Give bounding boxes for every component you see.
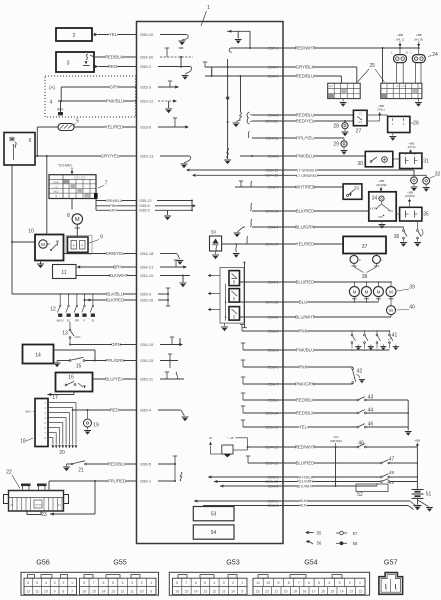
interior bus B [233, 75, 242, 127]
wire LT GRN/BLK to G56-11 [186, 167, 414, 176]
svg-text:3: 3 [54, 581, 56, 585]
svg-text:26: 26 [413, 120, 419, 126]
svg-text:18: 18 [20, 439, 26, 445]
svg-text:20: 20 [59, 450, 65, 456]
svg-text:YEL/GRN: YEL/GRN [297, 480, 314, 484]
wire 43-45 collector [405, 400, 412, 436]
wire 30-31 link [393, 153, 411, 159]
legend 55 [305, 530, 322, 535]
svg-text:5: 5 [318, 581, 320, 585]
svg-text:G55-14: G55-14 [265, 410, 279, 415]
svg-text:14: 14 [194, 590, 198, 594]
svg-text:G54-9: G54-9 [267, 73, 279, 78]
svg-text:G55-9: G55-9 [140, 292, 152, 297]
brace right pins [247, 112, 252, 124]
svg-text:49: 49 [389, 480, 394, 485]
svg-text:2: 2 [349, 581, 351, 585]
svg-text:BRN: BRN [113, 265, 122, 270]
svg-text:24: 24 [432, 52, 438, 58]
svg-text:OFF: OFF [378, 215, 384, 219]
legend 57 [336, 531, 358, 536]
svg-text:M: M [389, 289, 393, 294]
svg-text:G55-6: G55-6 [267, 397, 279, 402]
wire GRN to G54-19 [70, 337, 183, 347]
svg-text:WHT: WHT [329, 86, 334, 88]
svg-text:14: 14 [102, 590, 106, 594]
svg-text:G54-17: G54-17 [265, 241, 279, 246]
svg-text:10: 10 [140, 590, 144, 594]
svg-text:9: 9 [241, 590, 243, 594]
wire PNK to G56-1 [241, 360, 353, 370]
wire GRY to G55-5 [96, 209, 193, 221]
svg-text:BLU/RED: BLU/RED [296, 461, 315, 466]
power +BB H/L R [414, 33, 423, 47]
svg-text:BLU/GRN: BLU/GRN [295, 225, 314, 230]
svg-text:G55-7: G55-7 [267, 184, 279, 189]
svg-text:(DOME): (DOME) [376, 183, 386, 187]
svg-text:G56-10: G56-10 [265, 424, 279, 429]
svg-text:M: M [377, 289, 381, 294]
svg-text:GRN: GRN [111, 342, 121, 347]
wire PNK/BLU to G56-8 [241, 343, 390, 353]
svg-text:G54-21: G54-21 [140, 265, 154, 270]
svg-text:1: 1 [241, 581, 243, 585]
component 19 sensor [84, 409, 99, 435]
wire YEL to G56-10 [241, 420, 408, 430]
svg-text:G56-13: G56-13 [265, 460, 279, 465]
svg-text:GRD: GRD [75, 335, 81, 339]
component 22 connector body [4, 470, 69, 515]
svg-text:53: 53 [211, 512, 217, 518]
svg-text:31: 31 [423, 159, 429, 165]
svg-text:55: 55 [317, 530, 322, 535]
connector G57 [379, 558, 403, 595]
svg-text:LO: LO [54, 187, 57, 189]
ground relay block [221, 323, 228, 331]
interior row G54-7 left end [203, 62, 212, 76]
svg-text:15: 15 [92, 590, 96, 594]
svg-text:RED/YEL: RED/YEL [296, 119, 315, 124]
svg-text:17: 17 [52, 395, 58, 401]
svg-text:G56-5: G56-5 [140, 462, 152, 467]
svg-text:36: 36 [394, 234, 400, 240]
svg-text:MED: MED [53, 192, 58, 194]
svg-text:13: 13 [111, 590, 115, 594]
ground 26 [389, 133, 396, 141]
svg-text:11: 11 [256, 581, 260, 585]
component 13 switch [62, 322, 80, 346]
component 32 sensors [411, 172, 441, 185]
component 7 connector table [49, 175, 108, 199]
rail IG1 [335, 447, 337, 486]
svg-text:G55-16: G55-16 [140, 298, 154, 303]
power +BB DOME [376, 179, 386, 192]
component 21 switch [63, 461, 86, 474]
svg-text:BACK: BACK [57, 319, 64, 323]
svg-text:6: 6 [102, 581, 104, 585]
component 35 relay [400, 207, 429, 221]
wire PNK to G55-6 [96, 201, 196, 211]
component 16 switch box [56, 373, 93, 392]
svg-text:G57-1: G57-1 [267, 45, 279, 50]
svg-text:G54-11: G54-11 [265, 135, 279, 140]
svg-text:G56-1: G56-1 [267, 364, 279, 369]
svg-text:35: 35 [423, 212, 429, 218]
component 42 switch [352, 368, 365, 384]
wire RED/BLK to G54-20 [90, 48, 193, 68]
svg-text:43: 43 [368, 394, 374, 400]
svg-text:WHT/RED: WHT/RED [295, 185, 315, 190]
svg-text:41: 41 [392, 332, 398, 338]
component 53 box [193, 507, 234, 521]
svg-text:LT GRN/BLK: LT GRN/BLK [297, 169, 318, 173]
svg-text:6: 6 [29, 138, 32, 144]
svg-text:2: 2 [73, 33, 76, 39]
svg-text:BLU/YEL: BLU/YEL [105, 377, 123, 382]
wire ORN/BLU to G55-12 [96, 199, 193, 203]
svg-text:5: 5 [76, 119, 79, 125]
svg-text:G55-10: G55-10 [140, 32, 154, 37]
svg-text:32: 32 [435, 172, 441, 178]
svg-text:RL: RL [67, 319, 71, 323]
svg-text:7: 7 [71, 590, 73, 594]
svg-text:+BB: +BB [415, 439, 421, 443]
component 27 tail switch [353, 110, 367, 134]
svg-text:9: 9 [150, 590, 152, 594]
svg-text:RED/BLU: RED/BLU [296, 113, 315, 118]
svg-text:15: 15 [330, 590, 334, 594]
connector G55 [80, 558, 157, 595]
interior bus A [224, 59, 231, 164]
component 25 connector table right [381, 83, 422, 98]
svg-text:DI: DI [92, 319, 95, 323]
component 11 control box [53, 265, 77, 279]
junction block J1 outline [137, 22, 284, 544]
ground component 10 [37, 261, 44, 269]
component 31 relay [400, 153, 429, 168]
svg-text:1: 1 [207, 5, 210, 11]
svg-text:TO HVAC: TO HVAC [58, 164, 73, 168]
svg-text:4: 4 [328, 581, 330, 585]
svg-text:11: 11 [61, 270, 66, 276]
svg-text:8: 8 [176, 581, 178, 585]
svg-text:G55-11: G55-11 [140, 377, 154, 382]
svg-text:12: 12 [50, 307, 56, 313]
svg-text:17: 17 [312, 590, 316, 594]
svg-text:GRY: GRY [109, 85, 118, 90]
svg-text:52: 52 [357, 492, 363, 498]
svg-text:25: 25 [369, 63, 375, 69]
svg-text:4: 4 [122, 581, 124, 585]
component 2 switch box [56, 28, 92, 41]
ground component 50 [212, 251, 219, 259]
svg-text:BLK/RED: BLK/RED [296, 209, 315, 214]
svg-text:2: 2 [232, 581, 234, 585]
svg-text:16: 16 [68, 375, 74, 381]
component 30 switch box [357, 151, 392, 167]
svg-text:G54: G54 [304, 558, 318, 567]
svg-text:10: 10 [28, 229, 34, 235]
svg-text:G55-3: G55-3 [140, 85, 152, 90]
svg-text:DOOR: DOOR [368, 207, 376, 211]
svg-text:1: 1 [359, 581, 361, 585]
svg-text:14: 14 [340, 590, 344, 594]
svg-text:G55-6: G55-6 [139, 204, 150, 208]
ground battery [414, 498, 433, 511]
wire BLK/RED to G54-14 [251, 203, 369, 214]
svg-text:G54-4: G54-4 [267, 224, 279, 229]
svg-text:47: 47 [389, 456, 395, 462]
svg-text:G57: G57 [384, 558, 398, 567]
svg-text:20: 20 [284, 590, 288, 594]
component 6 sensor box [4, 133, 35, 166]
svg-text:15: 15 [76, 364, 82, 370]
svg-text:RED: RED [110, 408, 119, 413]
legend 58 [336, 541, 358, 546]
svg-text:PNK: PNK [109, 204, 117, 208]
svg-text:G54-1: G54-1 [267, 279, 279, 284]
svg-text:(METER): (METER) [330, 439, 342, 443]
svg-text:3: 3 [339, 581, 341, 585]
svg-text:4: 4 [45, 581, 47, 585]
svg-text:GRN/YEL: GRN/YEL [105, 251, 125, 256]
wire RED/BLK to G56-5 [86, 456, 177, 482]
wire YEL/GRN to G55-12 [214, 479, 417, 485]
svg-text:G54-14: G54-14 [265, 208, 279, 213]
wire GRY to G55-3 [61, 81, 179, 90]
svg-text:G53-3: G53-3 [267, 503, 279, 508]
wire 27-26 link [367, 115, 388, 121]
svg-text:7: 7 [93, 581, 95, 585]
wire GRN/YEL to G54-18 [64, 251, 184, 265]
component 50 box [210, 230, 222, 252]
svg-text:12: 12 [121, 590, 125, 594]
interior relay left ports [208, 274, 221, 311]
svg-text:G53-6: G53-6 [140, 125, 152, 130]
svg-text:G54-6: G54-6 [267, 153, 279, 158]
svg-text:RED/BLK: RED/BLK [296, 398, 315, 403]
svg-text:G55-5: G55-5 [139, 209, 150, 213]
svg-text:56: 56 [317, 541, 322, 546]
svg-text:8: 8 [67, 213, 70, 219]
svg-text:40: 40 [409, 305, 415, 311]
label 25 leaders [358, 63, 385, 82]
wire PNK to G56-2 [240, 325, 390, 334]
svg-text:9: 9 [54, 590, 56, 594]
svg-text:RED/BLK: RED/BLK [105, 55, 124, 60]
svg-text:G55-12: G55-12 [139, 199, 152, 203]
wire GRY/BLK to G54-7 [205, 64, 357, 83]
label TO HVAC [58, 164, 73, 175]
svg-text:57: 57 [353, 531, 358, 536]
svg-text:5: 5 [36, 581, 38, 585]
svg-text:AH1: AH1 [25, 410, 31, 414]
svg-text:G54-22: G54-22 [265, 118, 279, 123]
svg-text:7: 7 [105, 181, 108, 187]
component 37 washer unit [343, 236, 386, 253]
svg-text:18: 18 [302, 590, 306, 594]
component 34 dome switch [368, 192, 396, 221]
wire YEL/RED to G53-6 [74, 118, 189, 130]
svg-text:PNK/GRN: PNK/GRN [295, 382, 315, 387]
svg-text:(H/L L): (H/L L) [396, 37, 405, 41]
svg-text:YEL/RED: YEL/RED [296, 242, 315, 247]
svg-text:PPL/GRN: PPL/GRN [105, 358, 124, 363]
power +BB TAIL [377, 104, 385, 117]
wire BLK/BLU to G55-9 [12, 292, 169, 297]
legend 56 [306, 540, 322, 546]
svg-text:(TAIL): (TAIL) [377, 108, 385, 112]
svg-text:1 2: 1 2 [358, 112, 362, 116]
svg-text:RED: RED [108, 64, 117, 69]
svg-text:11: 11 [222, 590, 226, 594]
svg-text:M: M [75, 217, 80, 223]
svg-text:16: 16 [321, 590, 325, 594]
component 12 switch bank [50, 293, 95, 322]
svg-text:PPL/RED: PPL/RED [108, 479, 127, 484]
svg-text:M: M [353, 289, 357, 294]
wire PPL/RED to G56-1 [49, 479, 175, 484]
component 14 module box [23, 345, 54, 364]
svg-text:(H/L R): (H/L R) [414, 37, 423, 41]
svg-text:51: 51 [426, 492, 432, 498]
svg-text:39: 39 [409, 284, 415, 290]
wire LT GRN/RED to G54-15 [192, 173, 426, 178]
component 24 lamp left [391, 48, 408, 63]
svg-text:G56-11: G56-11 [265, 167, 279, 172]
svg-text:12: 12 [26, 590, 30, 594]
svg-text:29: 29 [333, 142, 339, 148]
component 15 switch [54, 357, 85, 369]
wire 36 link [404, 226, 418, 228]
svg-text:PWR: PWR [53, 182, 59, 184]
svg-text:7: 7 [186, 581, 188, 585]
component 4 BLK terminal [50, 100, 65, 116]
svg-text:GRY: GRY [109, 209, 118, 213]
ground G53-13 [181, 156, 191, 168]
wire BLU/WHT to G54-2 [240, 314, 392, 319]
component 24 lamp right [410, 48, 438, 63]
svg-text:10: 10 [266, 581, 270, 585]
svg-text:23: 23 [41, 512, 47, 518]
svg-text:21: 21 [78, 468, 84, 474]
svg-text:ON: ON [389, 209, 393, 213]
svg-text:22: 22 [6, 470, 12, 476]
svg-text:5: 5 [204, 581, 206, 585]
component 10 motor box [28, 229, 63, 261]
grounds 32 [411, 184, 430, 192]
interior relay block [220, 268, 244, 324]
interior relay right rail [225, 262, 247, 328]
component 9 connector [66, 235, 103, 255]
wire RED/BLU to G54-8 [252, 112, 353, 117]
wire PPL/GRN to G55-15 [57, 354, 178, 368]
svg-text:BLK/BLU: BLK/BLU [106, 292, 124, 297]
wire BLK to G57-2 [194, 498, 416, 505]
svg-text:PNK: PNK [299, 329, 308, 334]
svg-text:G54-19: G54-19 [140, 342, 154, 347]
wire lamp drops [397, 63, 422, 84]
wire hvac drop [71, 199, 73, 210]
power +BB HORN [405, 190, 415, 203]
interior mid dashes [242, 342, 244, 367]
svg-text:ORN/BLU: ORN/BLU [106, 199, 123, 203]
svg-text:58: 58 [353, 541, 358, 546]
svg-text:46: 46 [358, 440, 364, 446]
svg-text:LT GRN/RED: LT GRN/RED [296, 174, 318, 178]
svg-text:6: 6 [308, 581, 310, 585]
svg-text:M: M [365, 289, 369, 294]
component 36 horn switches [394, 221, 423, 247]
wire GRY/YEL to G53-13 [35, 154, 189, 159]
svg-text:37: 37 [362, 244, 368, 250]
svg-text:PPL/YEL: PPL/YEL [296, 136, 314, 141]
component 22 top plugs [21, 484, 47, 491]
wire 23 branch [41, 480, 96, 518]
svg-text:M: M [389, 308, 393, 313]
svg-text:RED/BLU: RED/BLU [296, 74, 315, 79]
wire BLU/RED to G56-13 [246, 456, 418, 466]
svg-text:G55-15: G55-15 [140, 358, 154, 363]
svg-text:PNK/BLU: PNK/BLU [296, 348, 315, 353]
svg-text:RED/WHT: RED/WHT [295, 46, 316, 51]
component 38 washer motors [350, 254, 384, 280]
ground table right [415, 99, 422, 107]
svg-text:5: 5 [112, 581, 114, 585]
svg-text:14: 14 [35, 353, 41, 359]
svg-text:RR: RR [75, 319, 79, 323]
svg-text:16: 16 [82, 590, 86, 594]
wire BLU/YEL to G55-11 [93, 372, 185, 382]
svg-text:8: 8 [83, 581, 85, 585]
wire RED/WHT to G54-13 [248, 440, 418, 449]
wire BLU/RED to G54-1 [240, 279, 392, 284]
svg-text:G54-3: G54-3 [267, 483, 279, 488]
scan artifact mark [94, 193, 98, 199]
svg-text:13: 13 [203, 590, 207, 594]
svg-text:13: 13 [62, 331, 68, 337]
wire from filter to vertical [36, 127, 58, 157]
rail +BB [417, 448, 419, 489]
svg-text:7: 7 [298, 581, 300, 585]
svg-text:10: 10 [231, 590, 235, 594]
svg-text:9: 9 [278, 581, 280, 585]
svg-text:(POS): (POS) [408, 145, 416, 149]
svg-text:27: 27 [356, 128, 362, 134]
component 54 box [193, 525, 234, 539]
svg-text:13: 13 [349, 590, 353, 594]
svg-text:GROM: GROM [35, 505, 42, 507]
wire WHT/BLK to G55-3 [208, 470, 417, 480]
svg-text:G56-1: G56-1 [140, 479, 152, 484]
svg-text:8: 8 [62, 590, 64, 594]
wire 17 link [48, 392, 75, 402]
wire RED/BLU to G54-9 [205, 73, 341, 83]
svg-text:RED/WHT: RED/WHT [295, 445, 316, 450]
svg-text:3: 3 [67, 61, 70, 67]
wire component 6 down [11, 165, 35, 294]
svg-text:RED/BLK: RED/BLK [108, 462, 127, 467]
wire BLK to G53-3 [203, 503, 414, 510]
svg-text:21: 21 [274, 590, 278, 594]
svg-text:28: 28 [333, 123, 339, 129]
svg-text:BLU/RED: BLU/RED [296, 280, 315, 285]
svg-text:A B C D E: A B C D E [74, 176, 86, 180]
component 3 switch box [56, 52, 94, 72]
svg-text:YEL: YEL [109, 32, 118, 37]
connector housing G53-G54 [169, 572, 369, 595]
svg-text:19: 19 [293, 590, 297, 594]
